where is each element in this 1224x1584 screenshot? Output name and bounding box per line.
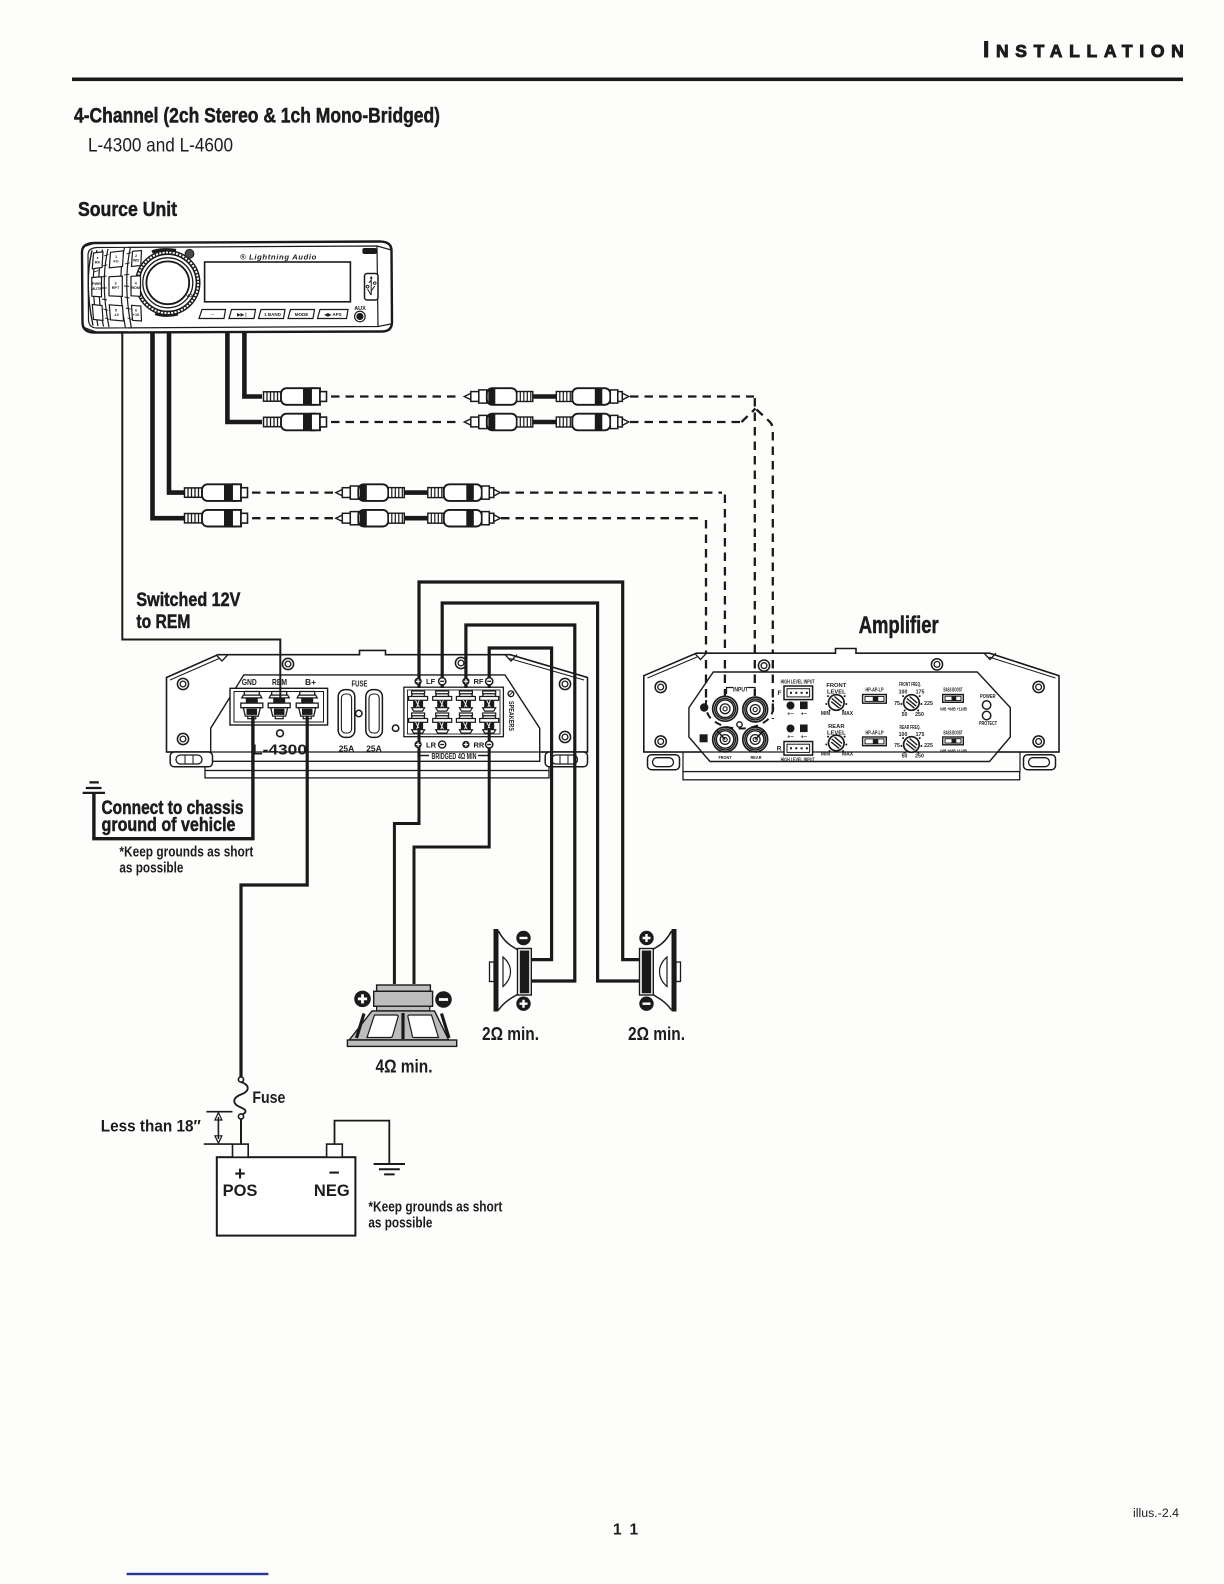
svg-text:LF: LF: [426, 677, 436, 686]
svg-text:25A: 25A: [339, 744, 355, 754]
svg-text:RPT: RPT: [112, 286, 120, 290]
head unit USB port: [365, 274, 379, 301]
svg-text:OPEN: OPEN: [364, 249, 376, 254]
svg-text:ground of vehicle: ground of vehicle: [102, 814, 236, 836]
svg-text:Source Unit: Source Unit: [78, 199, 177, 221]
svg-text:® Lightning Audio: ® Lightning Audio: [240, 253, 317, 262]
svg-text:R: R: [701, 736, 706, 743]
input RCA jack front-R: [713, 727, 738, 752]
svg-text:POS: POS: [223, 1182, 258, 1200]
head unit knob accent dot: [185, 249, 194, 258]
svg-text:L-4300 and L-4600: L-4300 and L-4600: [88, 136, 233, 157]
head unit OPEN button: [362, 248, 377, 254]
svg-text:2Ω min.: 2Ω min.: [628, 1024, 685, 1044]
svg-text:MUTE: MUTE: [91, 287, 102, 291]
svg-text:GND: GND: [242, 677, 257, 687]
svg-text:HIGH LEVEL INPUT: HIGH LEVEL INPUT: [781, 758, 815, 764]
left 2-ohm speaker: [490, 929, 532, 1012]
remote wire overlay into REM terminal: [279, 655, 281, 703]
svg-text:L: L: [789, 704, 793, 710]
svg-text:F: F: [778, 690, 782, 697]
speaker terminals col4: [480, 691, 499, 711]
svg-text:250: 250: [915, 754, 924, 760]
woofer: [347, 985, 456, 1046]
svg-text:FUSE: FUSE: [352, 679, 368, 689]
RCA plug row4: [185, 510, 248, 527]
footer blue rule: [127, 1573, 269, 1575]
RCA plug row3: [185, 484, 248, 501]
svg-text:MODE: MODE: [295, 312, 309, 317]
svg-text:R: R: [777, 746, 782, 753]
RCA coupler pair row3: [336, 484, 501, 501]
amplifier rear panel L-4300: [167, 650, 588, 778]
amp rear bottom plate: [167, 752, 588, 771]
input RCA jack rear-L: [743, 697, 768, 722]
fuse symbol: [238, 1077, 243, 1082]
svg-text:REAR: REAR: [828, 724, 845, 730]
svg-text:B+: B+: [305, 677, 316, 687]
amp front bottom plate: [644, 752, 1059, 772]
RCA coupler pair row1: [464, 388, 629, 405]
svg-text:75: 75: [894, 743, 900, 749]
svg-text:1: 1: [630, 1522, 639, 1539]
speaker wire LF+ to right speaker: [419, 582, 640, 960]
svg-text:100: 100: [899, 732, 908, 738]
svg-text:Fuse: Fuse: [252, 1088, 285, 1107]
dashed input lead-ins over faceplate: [706, 660, 773, 719]
head unit left buttons col3 (behind knob): [131, 251, 142, 322]
dimension arrow: [204, 1112, 233, 1144]
svg-text:SPEAKERS: SPEAKERS: [507, 701, 516, 731]
speaker polarity symbols top: [415, 678, 422, 685]
dashed signal cable row2: [331, 421, 461, 423]
speaker terminals col1: [409, 691, 428, 711]
svg-text:MIN: MIN: [821, 752, 831, 758]
battery: [217, 1157, 356, 1235]
svg-text:RDM: RDM: [131, 286, 140, 290]
input jack needles: [717, 730, 764, 740]
svg-text:HIGH LEVEL INPUT: HIGH LEVEL INPUT: [781, 680, 815, 686]
svg-text:FRONT: FRONT: [719, 755, 732, 761]
amp rear right foot: [545, 752, 587, 767]
svg-text:2: 2: [135, 254, 137, 258]
svg-text:+−: +−: [801, 712, 807, 718]
svg-text:4-Channel (2ch Stereo & 1ch Mo: 4-Channel (2ch Stereo & 1ch Mono-Bridged…: [74, 105, 440, 128]
RCA coupler pair row2: [464, 414, 629, 431]
svg-text:RK: RK: [95, 261, 101, 265]
svg-text:HP-AP-LP: HP-AP-LP: [866, 688, 884, 694]
amp rear faceplate: [211, 675, 540, 761]
amp rear screws: [177, 678, 188, 689]
svg-text:*Keep grounds as short: *Keep grounds as short: [368, 1200, 502, 1216]
RCA coupler pair row4: [336, 510, 501, 527]
svg-text:0dB +6dB +12dB: 0dB +6dB +12dB: [940, 707, 967, 713]
svg-text:+−: +−: [801, 735, 807, 741]
amp rear left foot: [170, 752, 212, 767]
svg-text:−: −: [328, 1163, 339, 1184]
svg-text:50: 50: [902, 754, 908, 760]
svg-text:1: 1: [115, 255, 117, 259]
svg-text:FRONT FREQ.: FRONT FREQ.: [899, 682, 921, 688]
svg-text:to REM: to REM: [136, 611, 190, 633]
svg-text:HP-AP-LP: HP-AP-LP: [866, 731, 884, 737]
svg-text:2Ω min.: 2Ω min.: [482, 1024, 539, 1044]
svg-text:+10: +10: [133, 313, 139, 317]
chassis ground symbol: [83, 782, 105, 793]
input RCA jack front-L: [713, 696, 738, 721]
dashed signal cable row3: [252, 491, 333, 493]
battery POS terminal: [233, 1144, 249, 1157]
header rule: [72, 78, 1183, 82]
svg-text:BRIDGED 4Ω MIN: BRIDGED 4Ω MIN: [432, 752, 477, 761]
svg-text:RF: RF: [474, 677, 484, 686]
high level input bottom: [787, 725, 795, 733]
dashed signal cable row1: [252, 397, 773, 720]
bridged woofer wire -: [414, 728, 489, 984]
svg-text:L-4300: L-4300: [252, 743, 307, 759]
ground wire from GND terminal: [94, 716, 253, 839]
svg-text:R: R: [802, 704, 807, 710]
svg-text:4Ω min.: 4Ω min.: [376, 1057, 433, 1077]
svg-text:POWER: POWER: [980, 694, 996, 700]
svg-text:WD: WD: [133, 259, 140, 263]
svg-text:Switched 12V: Switched 12V: [136, 589, 240, 611]
svg-text:RR: RR: [474, 741, 485, 750]
fuse holder 2: [366, 690, 383, 738]
wire from head unit to RCA row3: [169, 332, 184, 493]
svg-text:R: R: [802, 727, 807, 733]
svg-text:75: 75: [894, 701, 900, 707]
fuse holder 1: [338, 690, 355, 738]
svg-text:as possible: as possible: [119, 861, 183, 877]
speaker wire RF+ to left speaker: [466, 625, 575, 981]
head unit volume knob: [136, 250, 200, 316]
svg-text:175: 175: [916, 732, 925, 738]
speaker wire LF- to right speaker: [442, 603, 640, 981]
wire from head unit to RCA row2: [227, 332, 262, 422]
bridged woofer wire +: [394, 728, 419, 984]
svg-text:100: 100: [899, 690, 908, 696]
amp front left foot: [648, 755, 680, 770]
svg-text:0dB +6dB +12dB: 0dB +6dB +12dB: [940, 749, 967, 755]
source unit head unit body: [82, 242, 392, 333]
right 2-ohm speaker: [639, 929, 680, 1012]
svg-text:FO: FO: [113, 260, 118, 264]
svg-text:175: 175: [916, 690, 925, 696]
svg-text:250: 250: [915, 712, 924, 718]
wire from head unit to RCA row1: [244, 332, 262, 397]
svg-text:as possible: as possible: [368, 1216, 432, 1232]
speaker polarity symbols bottom: [415, 741, 422, 748]
svg-text:5: 5: [115, 309, 117, 313]
svg-text:BASS BOOST: BASS BOOST: [944, 731, 963, 737]
head unit left buttons col2: [109, 251, 124, 321]
speaker terminals col2: [433, 691, 452, 711]
remote turn-on wire from head unit: [122, 332, 280, 701]
svg-text:+−: +−: [787, 735, 793, 741]
svg-text:*Keep grounds as short: *Keep grounds as short: [119, 845, 253, 861]
svg-text:3: 3: [114, 282, 116, 286]
head unit left button arcs: [88, 247, 132, 329]
svg-text:LR: LR: [426, 741, 437, 750]
svg-text:MIN: MIN: [821, 711, 831, 717]
svg-text:VOL: VOL: [186, 293, 196, 298]
wire from head unit to RCA row4: [153, 332, 185, 518]
bridged bracket: [418, 751, 489, 756]
head unit display: [205, 262, 351, 302]
speaker terminals col3: [456, 691, 475, 711]
power terminal block: [230, 688, 328, 725]
amp rear chassis outline: [167, 650, 588, 752]
polarity symbols overlay: [415, 678, 422, 685]
head unit button labels: [91, 254, 140, 317]
svg-text:MAX: MAX: [842, 752, 854, 758]
amplifier front panel: [644, 649, 1059, 780]
svg-text:Less than 18″: Less than 18″: [101, 1117, 201, 1136]
speaker wire RF- to left speaker: [489, 648, 551, 960]
svg-text:6: 6: [135, 309, 137, 313]
svg-text:PWR: PWR: [92, 282, 101, 286]
svg-text:◀▶ APS: ◀▶ APS: [323, 312, 341, 317]
svg-text:-10: -10: [113, 313, 119, 317]
input RCA jack rear-R: [743, 727, 768, 752]
RCA plug row2: [264, 414, 327, 431]
dashed signal cable row4: [252, 517, 333, 519]
dashed oval around input jacks: [706, 700, 774, 729]
battery negative ground wire: [335, 1121, 390, 1164]
earth ground symbol: [374, 1164, 405, 1174]
terminal REM: [268, 692, 290, 719]
svg-text:illus.-2.4: illus.-2.4: [1133, 1508, 1180, 1520]
svg-text:INPUT: INPUT: [733, 687, 748, 694]
amp front right foot: [1024, 755, 1056, 770]
svg-text:REAR: REAR: [751, 755, 762, 761]
head unit bottom buttons: [199, 310, 348, 319]
svg-text:+−: +−: [787, 712, 793, 718]
SPEAKERS vertical label: [508, 691, 514, 697]
svg-text:Amplifier: Amplifier: [859, 612, 939, 639]
input L marker: [700, 703, 708, 711]
amp front screws: [655, 681, 666, 692]
terminal B+: [296, 692, 318, 719]
head unit left buttons col1: [92, 252, 103, 321]
svg-text:1: 1: [613, 1522, 622, 1539]
amp front faceplate: [689, 672, 1010, 762]
speaker terminal block: [404, 687, 504, 737]
svg-text:REAR FREQ.: REAR FREQ.: [900, 725, 921, 731]
svg-text:L: L: [789, 727, 793, 733]
svg-text:225: 225: [924, 743, 933, 749]
battery NEG terminal: [327, 1144, 343, 1157]
svg-text:●: ●: [96, 256, 98, 260]
amp front chassis outline: [644, 649, 1059, 753]
svg-text:PROTECT: PROTECT: [979, 721, 997, 727]
B+ power wire: [241, 716, 307, 1077]
woofer polarity: [354, 991, 371, 1008]
svg-text:NEG: NEG: [314, 1182, 350, 1200]
terminal GND: [241, 692, 263, 719]
svg-text:INSTALLATION: INSTALLATION: [983, 37, 1191, 62]
RCA plug row1: [264, 388, 327, 405]
svg-text:FRONT: FRONT: [826, 683, 846, 689]
svg-text:25A: 25A: [366, 744, 382, 754]
svg-text:BASS BOOST: BASS BOOST: [944, 688, 963, 694]
svg-text:MAX: MAX: [842, 711, 854, 717]
input R marker: [700, 734, 708, 742]
svg-text:225: 225: [924, 701, 933, 707]
svg-text:1 BAND: 1 BAND: [264, 312, 282, 317]
svg-text:50: 50: [902, 712, 908, 718]
